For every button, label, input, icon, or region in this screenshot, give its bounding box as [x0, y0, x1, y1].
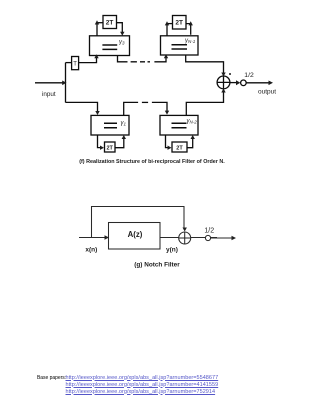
- svg-text:T: T: [73, 61, 77, 67]
- svg-text:2T: 2T: [106, 146, 113, 152]
- svg-text:2T: 2T: [176, 146, 183, 152]
- svg-text:output: output: [258, 89, 276, 96]
- svg-text:x(n): x(n): [85, 246, 97, 253]
- svg-text:1/2: 1/2: [204, 228, 214, 235]
- svg-text:2T: 2T: [106, 19, 114, 26]
- svg-text:2T: 2T: [175, 20, 183, 27]
- svg-text:A(z): A(z): [128, 230, 143, 239]
- svg-text:γN-1: γN-1: [185, 38, 196, 44]
- svg-text:input: input: [42, 91, 56, 98]
- svg-text:y(n): y(n): [166, 246, 178, 253]
- svg-text:γ3: γ3: [119, 40, 125, 46]
- svg-text:γN-2: γN-2: [187, 119, 198, 125]
- svg-text:(f) Realization Structure of b: (f) Realization Structure of bi-reciproc…: [79, 159, 225, 165]
- svg-text:1/2: 1/2: [244, 72, 254, 79]
- svg-text:(g) Notch Filter: (g) Notch Filter: [134, 262, 180, 269]
- svg-text:γ1: γ1: [121, 121, 127, 127]
